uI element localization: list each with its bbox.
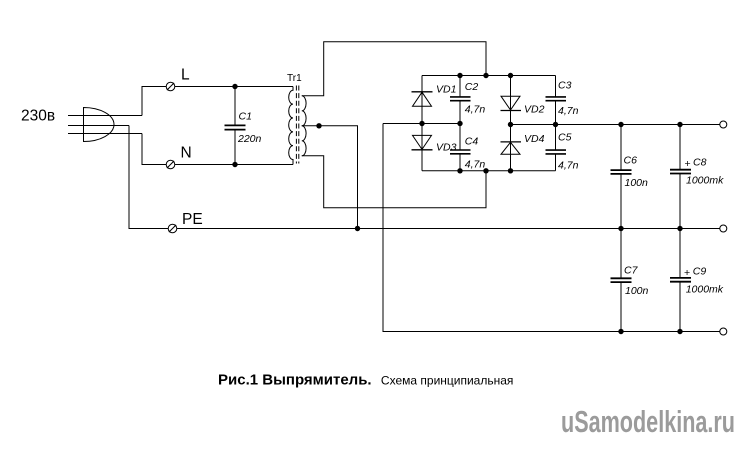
svg-text:C6: C6 xyxy=(624,155,638,167)
bridge bottom rail xyxy=(422,170,556,172)
transformer Tr1 core xyxy=(296,86,298,164)
bridge mid-left rail xyxy=(383,123,460,125)
wire secondary top to bridge top rail xyxy=(302,42,486,96)
svg-text:PE: PE xyxy=(182,211,203,228)
junction mid-left at VD1 xyxy=(419,121,424,126)
svg-text:VD3: VD3 xyxy=(436,142,457,154)
wire center tap to PE rail xyxy=(302,126,358,229)
svg-text:C9: C9 xyxy=(693,265,707,277)
capacitor C4 xyxy=(450,124,471,171)
svg-text:uSamodelkina.ru: uSamodelkina.ru xyxy=(561,404,735,439)
capacitor C3 xyxy=(546,76,567,125)
mains plug X1 xyxy=(84,108,114,142)
svg-text:100n: 100n xyxy=(625,285,649,297)
svg-text:1000mk: 1000mk xyxy=(686,284,724,296)
capacitor C5 xyxy=(546,125,567,171)
capacitor C2 xyxy=(450,76,471,124)
junction mid-right at VD2 xyxy=(508,122,513,127)
junction center tap at PE rail xyxy=(355,226,360,231)
transformer Tr1 primary winding xyxy=(289,87,293,165)
svg-text:C3: C3 xyxy=(558,80,572,92)
output terminal top xyxy=(720,121,727,128)
svg-text:C7: C7 xyxy=(624,264,639,276)
diode VD4 xyxy=(501,125,522,171)
junction center tap xyxy=(316,123,321,128)
svg-text:+: + xyxy=(684,267,690,279)
junction C1 top xyxy=(232,84,237,89)
wire plug to terminal N xyxy=(142,134,166,165)
plug pin to PE (middle prong) xyxy=(68,125,129,127)
junction bottom rail at feed xyxy=(483,168,488,173)
capacitor C9 xyxy=(670,229,691,332)
wire terminal L to C1 and Tr1 primary xyxy=(175,86,293,88)
svg-text:C1: C1 xyxy=(239,111,252,123)
junction top rail at feed xyxy=(483,73,488,78)
svg-text:VD2: VD2 xyxy=(524,104,545,116)
terminal L xyxy=(166,82,175,91)
wire secondary bottom to bridge bottom rail xyxy=(302,156,486,208)
wire PE rail xyxy=(177,228,720,230)
junction mid-left at C2 xyxy=(457,121,462,126)
capacitor C1 xyxy=(225,87,246,165)
svg-text:L: L xyxy=(181,67,190,84)
transformer Tr1 secondary winding bottom half xyxy=(302,126,306,156)
wire mid-left rail down to bottom output rail xyxy=(383,124,720,332)
terminal N xyxy=(166,160,175,169)
junction C8 bottom xyxy=(677,226,682,231)
diode VD1 xyxy=(412,76,433,124)
junction bottom rail at C4 xyxy=(457,168,462,173)
svg-text:+: + xyxy=(685,158,691,170)
svg-text:VD4: VD4 xyxy=(524,133,545,145)
svg-text:C5: C5 xyxy=(558,132,572,144)
output terminal middle xyxy=(720,225,727,232)
junction C7 bottom xyxy=(618,329,623,334)
junction bottom rail at VD4 xyxy=(508,168,513,173)
svg-text:C4: C4 xyxy=(465,136,479,148)
capacitor C6 xyxy=(611,125,632,229)
junction top rail at VD2 xyxy=(508,73,513,78)
svg-text:1000mk: 1000mk xyxy=(686,175,724,187)
svg-text:4,7n: 4,7n xyxy=(465,158,486,170)
svg-text:Tr1: Tr1 xyxy=(287,73,302,84)
output terminal bottom xyxy=(720,328,727,335)
junction C6 bottom xyxy=(618,226,623,231)
plug pin to L (top prong) xyxy=(68,115,142,117)
svg-text:230в: 230в xyxy=(21,108,55,125)
svg-text:100n: 100n xyxy=(625,177,649,189)
bridge mid-right rail xyxy=(511,124,720,126)
svg-text:C8: C8 xyxy=(693,157,707,169)
svg-text:C2: C2 xyxy=(465,81,479,93)
svg-text:4,7n: 4,7n xyxy=(558,105,579,117)
junction C9 bottom xyxy=(677,329,682,334)
wire plug to terminal PE xyxy=(129,126,168,229)
svg-text:N: N xyxy=(181,145,192,162)
svg-text:VD1: VD1 xyxy=(436,84,456,96)
diode VD2 xyxy=(501,76,522,125)
capacitor C8 xyxy=(670,125,691,229)
terminal PE xyxy=(168,224,177,233)
wire plug to terminal L xyxy=(142,87,166,116)
junction top rail at C2 xyxy=(457,73,462,78)
junction C8 top xyxy=(677,122,682,127)
plug pin to N (bottom prong) xyxy=(68,133,142,135)
transformer Tr1 secondary winding top half xyxy=(302,96,306,126)
diode VD3 xyxy=(412,124,433,171)
wire terminal N to C1 and Tr1 primary xyxy=(175,164,293,166)
bridge top rail xyxy=(422,75,556,77)
svg-text:Рис.1 Выпрямитель. Схема принц: Рис.1 Выпрямитель. Схема принципиальная xyxy=(218,372,513,389)
junction C6 top xyxy=(618,122,623,127)
capacitor C7 xyxy=(611,229,632,332)
svg-text:4,7n: 4,7n xyxy=(558,160,579,172)
junction mid-right at C3 xyxy=(553,122,558,127)
svg-text:4,7n: 4,7n xyxy=(465,104,486,116)
svg-text:220n: 220n xyxy=(237,133,262,145)
junction C1 bottom xyxy=(232,162,237,167)
